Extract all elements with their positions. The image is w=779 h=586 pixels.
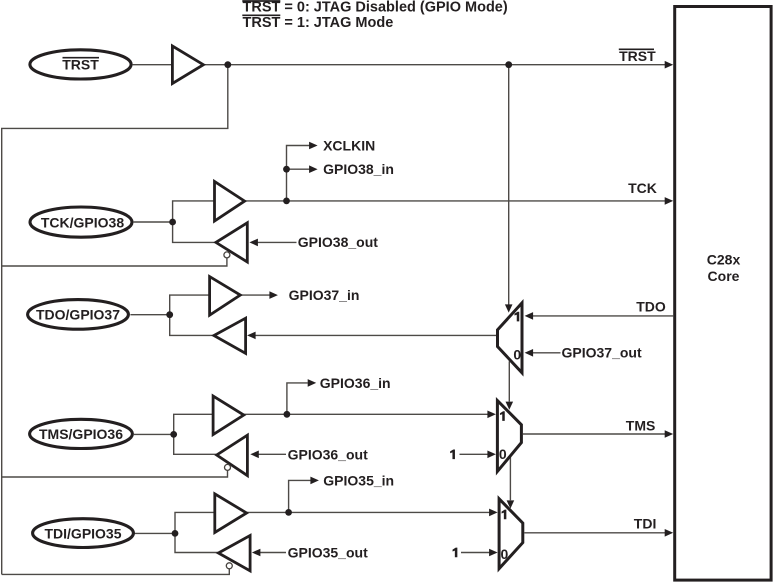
- svg-text:TDO: TDO: [636, 298, 666, 314]
- svg-text:TDI/GPIO35: TDI/GPIO35: [44, 525, 121, 541]
- svg-text:GPIO35_out: GPIO35_out: [288, 545, 368, 561]
- svg-text:GPIO38_in: GPIO38_in: [323, 161, 394, 177]
- svg-text:TCK: TCK: [628, 180, 657, 196]
- svg-text:TRST: TRST: [619, 48, 656, 64]
- svg-text:GPIO36_out: GPIO36_out: [288, 447, 368, 463]
- svg-text:GPIO36_in: GPIO36_in: [320, 375, 391, 391]
- svg-text:TRST = 0: JTAG Disabled (GPIO: TRST = 0: JTAG Disabled (GPIO Mode): [243, 0, 508, 16]
- svg-text:TRST = 1: JTAG Mode: TRST = 1: JTAG Mode: [243, 15, 394, 31]
- svg-text:0: 0: [513, 347, 521, 363]
- svg-text:C28x: C28x: [707, 252, 741, 268]
- svg-text:TMS: TMS: [626, 418, 656, 434]
- svg-text:TRST: TRST: [62, 57, 99, 73]
- svg-text:GPIO38_out: GPIO38_out: [298, 234, 378, 250]
- svg-text:TMS/GPIO36: TMS/GPIO36: [39, 426, 123, 442]
- svg-text:0: 0: [501, 546, 509, 562]
- svg-text:GPIO37_in: GPIO37_in: [289, 287, 360, 303]
- svg-text:0: 0: [499, 446, 507, 462]
- svg-text:TDO/GPIO37: TDO/GPIO37: [36, 307, 120, 323]
- svg-text:GPIO37_out: GPIO37_out: [562, 345, 642, 361]
- svg-text:GPIO35_in: GPIO35_in: [323, 473, 394, 489]
- svg-text:Core: Core: [708, 268, 740, 284]
- svg-text:TCK/GPIO38: TCK/GPIO38: [41, 214, 124, 230]
- svg-text:XCLKIN: XCLKIN: [323, 138, 375, 154]
- svg-text:TDI: TDI: [634, 516, 657, 532]
